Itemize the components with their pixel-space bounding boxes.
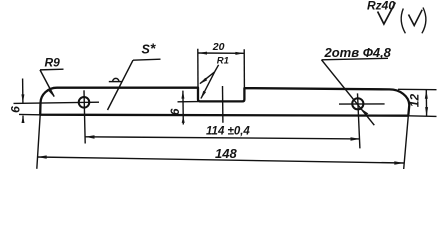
centerline left hole vertical / 114 ext left (84, 90, 85, 143)
dim line 12 (425, 90, 428, 116)
svg-text:R1: R1 (217, 55, 229, 66)
centerline right hole vertical / 114 ext right (358, 93, 360, 148)
paren left (401, 9, 405, 34)
centerline notch vertical (222, 86, 224, 123)
roughness tick (378, 3, 396, 25)
leader R1 (two arrows to notch fillets) (199, 65, 218, 99)
ext line 12 dim bottom (408, 115, 436, 118)
dim 6 left (centerline to bottom edge) (21, 79, 24, 124)
ext line notch bottom left (178, 101, 199, 103)
leader 2отв Ф4,8 (322, 58, 389, 125)
ext line 148 left (37, 115, 40, 169)
svg-text:114 ±0,4: 114 ±0,4 (206, 125, 250, 137)
leader R9 (40, 69, 64, 96)
dim line 148 (37, 155, 404, 164)
ext line 12 dim top (398, 88, 437, 90)
centerline left hole horizontal (14, 102, 100, 103)
hole right (352, 98, 363, 109)
centerline right hole horizontal (339, 103, 385, 105)
svg-text:2отв Ф4,8: 2отв Ф4,8 (324, 45, 392, 60)
part outline (40, 88, 409, 116)
ext line 20 dim right (243, 49, 245, 88)
ext line 20 dim left (197, 49, 199, 88)
svg-text:148: 148 (215, 146, 237, 161)
dim line 20 (198, 52, 244, 55)
paren right (422, 8, 426, 34)
svg-text:12: 12 (407, 94, 421, 108)
svg-text:6: 6 (168, 108, 182, 115)
svg-text:R9: R9 (45, 56, 61, 70)
check in parens (409, 10, 423, 26)
svg-text:20: 20 (212, 41, 225, 53)
dim 6 notch (top edge to bottom, arrows up) (181, 91, 184, 125)
ext line 148 right (404, 116, 409, 169)
leader S* with thickness mark (108, 59, 161, 110)
svg-text:S*: S* (142, 40, 156, 57)
svg-text:6: 6 (9, 106, 23, 113)
dim line 114 (85, 135, 360, 140)
ext line bottom edge left (19, 113, 40, 115)
hole left (79, 97, 90, 108)
